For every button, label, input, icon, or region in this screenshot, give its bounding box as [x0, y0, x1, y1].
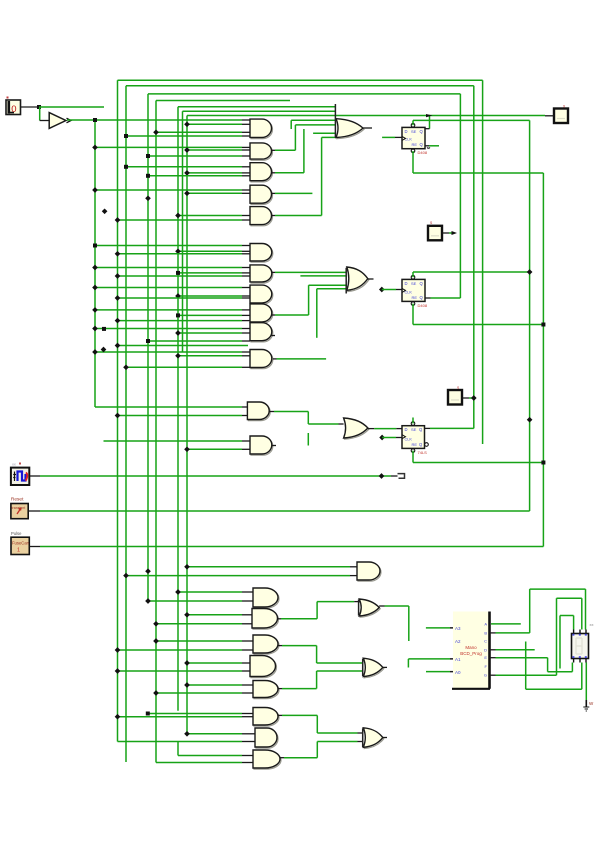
svg-text:RE: RE — [412, 142, 418, 147]
svg-text:D: D — [405, 129, 408, 134]
svg-text:74LS: 74LS — [418, 450, 428, 455]
svg-text:SE: SE — [411, 427, 417, 432]
svg-text:Reset: Reset — [11, 497, 24, 503]
svg-text:D: D — [405, 281, 408, 286]
svg-text:Mano: Mano — [465, 645, 477, 650]
svg-text:A: A — [484, 621, 487, 626]
svg-text:C: C — [484, 638, 487, 643]
svg-text:D408: D408 — [418, 303, 428, 308]
svg-text:A2: A2 — [455, 639, 461, 644]
svg-text:E: E — [484, 655, 487, 660]
svg-text:A0: A0 — [455, 670, 461, 675]
svg-text:xx: xx — [12, 463, 16, 467]
svg-text:D408: D408 — [418, 150, 428, 155]
svg-text:SE: SE — [411, 129, 417, 134]
svg-text:D: D — [405, 427, 408, 432]
svg-text:BCD_Prog: BCD_Prog — [460, 651, 482, 656]
svg-text:B: B — [484, 630, 487, 635]
svg-text:transient: transient — [12, 506, 26, 510]
svg-text:1: 1 — [17, 548, 20, 554]
svg-text:A1: A1 — [455, 657, 461, 662]
svg-text:A3: A3 — [455, 626, 461, 631]
svg-text:0: 0 — [11, 104, 16, 115]
svg-text:xx: xx — [590, 622, 594, 627]
svg-text:CLK: CLK — [405, 437, 413, 441]
svg-text:SE: SE — [411, 281, 417, 286]
svg-text:FuseCan: FuseCan — [12, 541, 30, 546]
svg-text:RE: RE — [412, 442, 418, 447]
svg-text:CLK: CLK — [405, 290, 413, 294]
svg-text:G: G — [484, 673, 487, 678]
svg-text:D: D — [484, 647, 487, 652]
svg-text:RE: RE — [412, 295, 418, 300]
svg-text:Pulse: Pulse — [11, 531, 22, 536]
